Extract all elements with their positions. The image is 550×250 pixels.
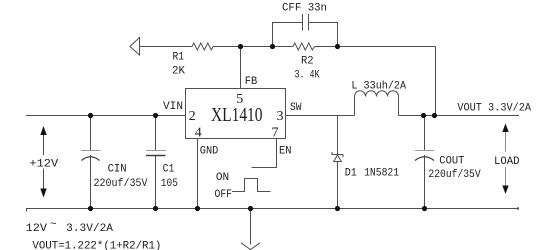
svg-text:4: 4: [195, 125, 202, 140]
capacitor COUT branch wires: [424, 116, 426, 151]
inductor L: [355, 91, 399, 116]
IC U1 box: [186, 89, 286, 139]
svg-text:2: 2: [189, 109, 196, 124]
svg-text:FB: FB: [245, 76, 258, 88]
svg-text:+12V: +12V: [29, 159, 58, 171]
ON/OFF pulse symbol: [232, 179, 271, 192]
wire feedback right drop: [435, 47, 437, 116]
svg-text:105: 105: [161, 178, 178, 190]
svg-text:2K: 2K: [172, 66, 185, 78]
svg-text:CIN: CIN: [108, 164, 127, 176]
wire ground stem: [250, 209, 252, 245]
+12V dimension arrow line: [43, 130, 45, 155]
svg-text:12V: 12V: [26, 223, 48, 235]
svg-text:L 33uh/2A: L 33uh/2A: [351, 80, 406, 92]
junction node FB drop: [432, 113, 437, 118]
wire R2 to feedback corner: [315, 46, 436, 48]
wire CFF left riser: [273, 23, 303, 47]
wire triangle to R1: [140, 46, 193, 48]
junction node C1 bottom: [153, 206, 158, 211]
LOAD dimension arrow lines: [505, 131, 507, 152]
wire inductor to VOUT: [399, 115, 520, 117]
diode D1 triangle: [334, 155, 342, 162]
wire VIN rail: [26, 115, 186, 117]
svg-text:3: 3: [277, 109, 284, 124]
wire R1 to R2: [213, 46, 293, 48]
svg-text:VIN: VIN: [163, 101, 183, 113]
svg-text:1N5821: 1N5821: [364, 168, 399, 180]
resistor R2: [293, 43, 315, 50]
junction node ground stem: [248, 206, 253, 211]
LOAD arrowheads: [502, 124, 508, 133]
svg-text:C1: C1: [163, 164, 175, 176]
svg-text:220uf/35V: 220uf/35V: [428, 169, 481, 181]
capacitor CIN plates: [81, 150, 101, 152]
wire FB drop to pin 5: [240, 47, 242, 89]
capacitor CIN branch wires: [90, 116, 92, 151]
capacitor C1 branch wires: [155, 116, 157, 151]
capacitor CFF plates: [302, 14, 304, 31]
svg-text:LOAD: LOAD: [494, 156, 520, 168]
svg-text:COUT: COUT: [439, 156, 464, 168]
junction node COUT bottom: [422, 206, 427, 211]
ground arrow chevron: [241, 243, 260, 250]
junction node D1 bottom: [335, 206, 340, 211]
svg-text:ON: ON: [216, 172, 229, 184]
svg-text:D1: D1: [345, 168, 357, 180]
svg-text:R2: R2: [301, 55, 314, 67]
junction node GND bottom: [195, 206, 200, 211]
svg-text:SW: SW: [290, 102, 302, 114]
junction node FB-R1: [238, 44, 243, 49]
svg-text:220uf/35V: 220uf/35V: [94, 178, 148, 190]
wire bottom rail right end nub: [517, 207, 519, 209]
svg-text:~: ~: [50, 219, 57, 231]
resistor R1: [192, 43, 213, 50]
wire GND pin drop: [197, 139, 199, 209]
wire EN pin stub: [252, 139, 277, 168]
svg-text:GND: GND: [200, 146, 219, 158]
wire CFF right riser: [309, 23, 338, 47]
junction node CFF right: [335, 44, 340, 49]
junction node CIN top: [88, 113, 93, 118]
svg-text:OFF: OFF: [215, 189, 233, 201]
capacitor COUT plates: [415, 150, 434, 152]
junction node CFF left: [270, 44, 275, 49]
svg-text:VOUT 3.3V/2A: VOUT 3.3V/2A: [457, 103, 531, 115]
svg-text:3.3V/2A: 3.3V/2A: [66, 223, 113, 235]
junction node CIN bottom: [88, 206, 93, 211]
svg-text:CFF 33n: CFF 33n: [282, 3, 327, 15]
svg-text:EN: EN: [279, 146, 292, 158]
input arrow triangle: [130, 38, 140, 56]
svg-text:XL1410: XL1410: [211, 104, 263, 126]
diode D1 branch wires: [337, 116, 339, 155]
+12V arrowheads: [40, 126, 46, 135]
wire bottom rail left tick: [26, 209, 28, 212]
capacitor C1 plates: [146, 150, 166, 152]
svg-text:VOUT=1.222*(1+R2/R1): VOUT=1.222*(1+R2/R1): [32, 241, 161, 250]
wire SW pin to inductor: [286, 115, 355, 117]
diode D1 schottky bar: [332, 152, 343, 157]
svg-text:7: 7: [272, 125, 279, 140]
svg-text:3. 4K: 3. 4K: [295, 70, 320, 82]
svg-text:R1: R1: [173, 52, 185, 64]
junction node C1 top: [153, 113, 158, 118]
junction node COUT top: [421, 113, 426, 118]
wire bottom rail: [26, 208, 519, 210]
